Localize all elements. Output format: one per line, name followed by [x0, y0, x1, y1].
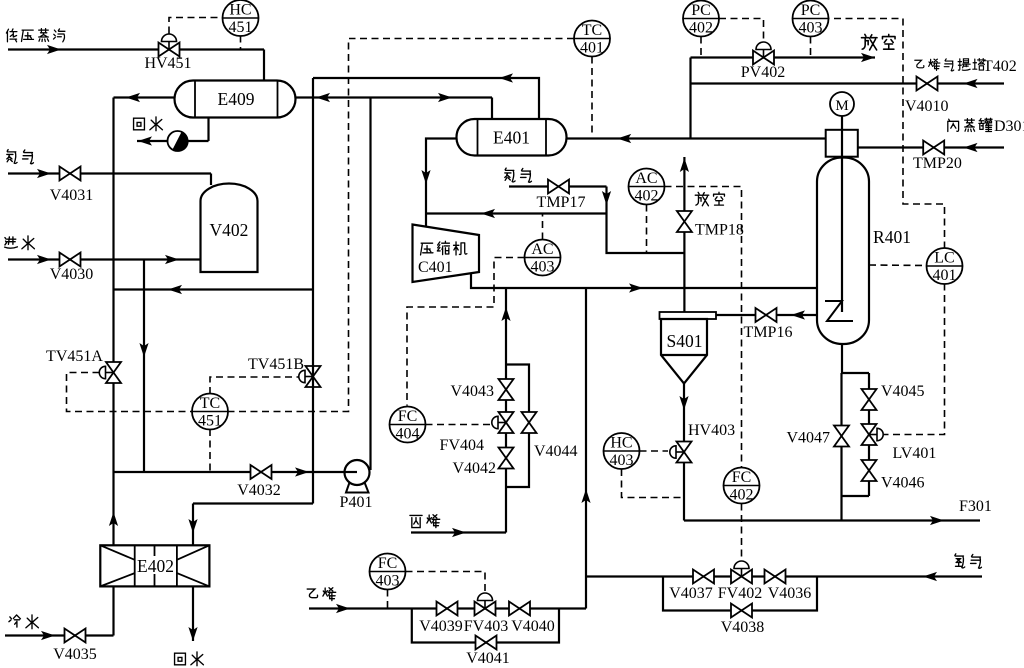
svg-text:402: 402 [689, 20, 713, 37]
svg-text:V4035: V4035 [53, 646, 97, 663]
svg-text:FC: FC [398, 408, 418, 425]
svg-text:403: 403 [799, 20, 823, 37]
svg-text:V4036: V4036 [768, 585, 812, 602]
svg-text:R401: R401 [873, 227, 911, 247]
svg-text:V4039: V4039 [419, 618, 463, 635]
svg-text:451: 451 [198, 413, 222, 430]
svg-text:FV402: FV402 [718, 585, 762, 602]
svg-text:E409: E409 [218, 89, 255, 109]
svg-text:FV404: FV404 [440, 437, 484, 454]
svg-text:TV451A: TV451A [46, 348, 103, 365]
svg-text:M: M [835, 98, 848, 114]
svg-text:V4041: V4041 [466, 650, 510, 667]
svg-text:HV403: HV403 [688, 422, 735, 439]
svg-text:V4045: V4045 [881, 383, 925, 400]
svg-text:P401: P401 [340, 494, 373, 511]
svg-text:V4038: V4038 [721, 619, 765, 636]
svg-text:V4032: V4032 [237, 482, 281, 499]
svg-text:T402: T402 [983, 58, 1017, 75]
svg-text:S401: S401 [667, 331, 703, 351]
svg-text:TC: TC [582, 22, 602, 39]
svg-text:TC: TC [200, 395, 220, 412]
svg-text:401: 401 [933, 267, 957, 284]
svg-text:V4031: V4031 [50, 187, 94, 204]
svg-text:402: 402 [730, 487, 754, 504]
svg-text:PV402: PV402 [741, 64, 785, 81]
svg-text:V4010: V4010 [905, 98, 949, 115]
svg-text:TMP16: TMP16 [744, 324, 793, 341]
svg-text:V402: V402 [210, 220, 249, 240]
svg-text:V4042: V4042 [452, 460, 496, 477]
svg-text:403: 403 [610, 452, 634, 469]
svg-text:451: 451 [229, 19, 253, 36]
svg-text:403: 403 [376, 573, 400, 590]
svg-text:LC: LC [934, 250, 954, 267]
svg-text:HC: HC [610, 435, 632, 452]
svg-text:TMP20: TMP20 [913, 155, 962, 172]
svg-text:FC: FC [732, 469, 752, 486]
svg-text:E402: E402 [137, 556, 174, 576]
svg-text:AC: AC [635, 170, 657, 187]
svg-text:D301: D301 [994, 118, 1024, 135]
svg-text:V4047: V4047 [786, 430, 830, 447]
svg-text:E401: E401 [493, 128, 530, 148]
svg-text:HV451: HV451 [144, 55, 191, 72]
svg-text:TMP17: TMP17 [537, 194, 586, 211]
svg-text:V4037: V4037 [669, 585, 713, 602]
svg-text:FV403: FV403 [464, 618, 508, 635]
svg-text:401: 401 [580, 40, 604, 57]
svg-text:V4030: V4030 [50, 266, 94, 283]
svg-text:V4044: V4044 [534, 443, 578, 460]
svg-text:TV451B: TV451B [248, 356, 304, 373]
svg-text:AC: AC [531, 241, 553, 258]
svg-text:F301: F301 [959, 498, 992, 515]
svg-text:404: 404 [396, 426, 420, 443]
svg-text:C401: C401 [418, 259, 453, 276]
svg-text:HC: HC [229, 2, 251, 19]
svg-text:402: 402 [635, 188, 659, 205]
svg-text:PC: PC [801, 2, 821, 19]
svg-text:V4040: V4040 [511, 618, 555, 635]
svg-text:PC: PC [691, 2, 711, 19]
svg-text:V4046: V4046 [881, 475, 925, 492]
svg-text:LV401: LV401 [893, 445, 937, 462]
svg-text:403: 403 [531, 259, 555, 276]
svg-text:FC: FC [378, 555, 398, 572]
svg-text:TMP18: TMP18 [695, 222, 744, 239]
svg-text:V4043: V4043 [450, 383, 494, 400]
